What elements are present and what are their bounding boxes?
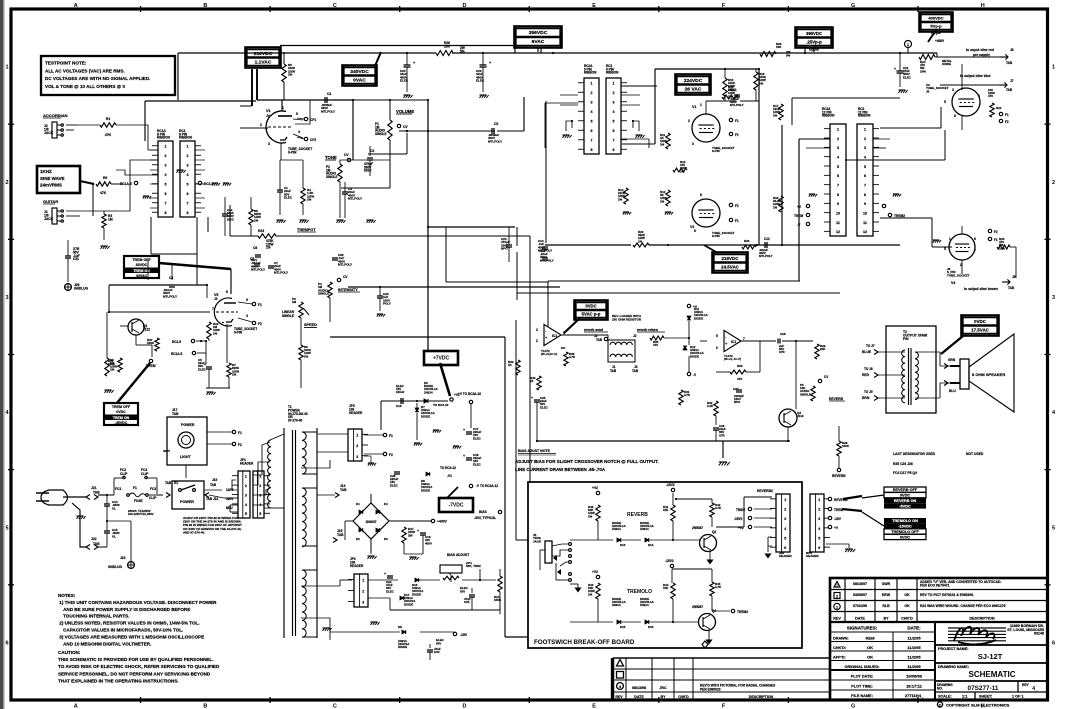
svg-text:6: 6 xyxy=(864,174,866,178)
svg-text:+V2: +V2 xyxy=(592,486,598,490)
svg-text:JACK: JACK xyxy=(44,131,54,135)
svg-text:63146: 63146 xyxy=(1034,632,1044,636)
svg-text:SIGNATURES:: SIGNATURES: xyxy=(847,626,878,631)
svg-text:SINE WAVE: SINE WAVE xyxy=(40,176,65,181)
svg-text:FILE NAME:: FILE NAME: xyxy=(851,694,873,698)
svg-text:DRAWN:: DRAWN: xyxy=(833,637,849,641)
svg-text:TAB: TAB xyxy=(610,369,617,373)
svg-text:1: 1 xyxy=(245,475,247,479)
svg-text:POWER: POWER xyxy=(180,500,194,504)
svg-text:CHK'D:: CHK'D: xyxy=(833,646,846,650)
svg-text:ELEC: ELEC xyxy=(473,436,482,440)
svg-text:X7R: X7R xyxy=(779,350,786,354)
svg-text:6: 6 xyxy=(974,237,976,241)
svg-text:+V2: +V2 xyxy=(592,570,598,574)
svg-text:E: E xyxy=(592,704,596,709)
svg-text:1: 1 xyxy=(907,43,909,47)
svg-text:C9: C9 xyxy=(494,122,498,126)
svg-text:D16: D16 xyxy=(648,625,654,629)
svg-text:5: 5 xyxy=(864,165,866,169)
svg-text:12: 12 xyxy=(836,230,840,234)
svg-text:5: 5 xyxy=(613,120,615,124)
svg-text:G: G xyxy=(851,3,855,9)
svg-text:OK: OK xyxy=(867,655,873,660)
svg-text:MTLPOLY: MTLPOLY xyxy=(251,268,265,272)
svg-text:-15VDC: -15VDC xyxy=(898,525,912,529)
svg-text:6: 6 xyxy=(5,640,8,646)
svg-text:RIBBON: RIBBON xyxy=(606,71,619,75)
svg-text:50K, TRIM: 50K, TRIM xyxy=(466,564,481,568)
svg-text:TO RC3-12: TO RC3-12 xyxy=(440,466,456,470)
svg-text:MTLPOLY: MTLPOLY xyxy=(321,109,335,113)
svg-text:to output xfmr brown: to output xfmr brown xyxy=(964,287,998,291)
svg-text:07S277-11: 07S277-11 xyxy=(968,685,999,692)
svg-text:9-PIN: 9-PIN xyxy=(234,330,243,334)
svg-text:220uF: 220uF xyxy=(396,390,405,394)
svg-text:5: 5 xyxy=(716,334,718,338)
svg-text:DATE: DATE xyxy=(634,695,644,699)
svg-text:5VAC p-p: 5VAC p-p xyxy=(582,312,601,317)
svg-text:18:17:11: 18:17:11 xyxy=(906,684,923,689)
svg-text:2: 2 xyxy=(187,154,189,158)
svg-text:J9: J9 xyxy=(1012,275,1016,279)
svg-text:3: 3 xyxy=(268,142,270,146)
svg-text:C2: C2 xyxy=(327,92,331,96)
svg-text:475: 475 xyxy=(737,377,742,381)
svg-text:MTLPOLY: MTLPOLY xyxy=(338,263,352,267)
svg-text:1: 1 xyxy=(818,498,820,502)
svg-text:150 OHM RESISTOR: 150 OHM RESISTOR xyxy=(612,317,642,321)
svg-text:+: + xyxy=(894,67,896,71)
svg-text:MTLPOLY: MTLPOLY xyxy=(274,271,288,275)
svg-text:2N5087: 2N5087 xyxy=(692,526,703,530)
svg-text:R33: R33 xyxy=(737,364,743,368)
svg-text:+: + xyxy=(463,454,465,458)
svg-text:ELEC: ELEC xyxy=(390,483,399,487)
svg-text:A: A xyxy=(74,3,78,9)
svg-text:1: 1 xyxy=(864,128,866,132)
svg-text:5Vp-p: 5Vp-p xyxy=(930,24,942,29)
svg-text:J7: J7 xyxy=(1010,79,1014,83)
svg-text:MTLPOLY: MTLPOLY xyxy=(163,294,177,298)
svg-text:4: 4 xyxy=(591,110,593,114)
svg-text:8: 8 xyxy=(837,193,839,197)
svg-text:ADJUST BIAS FOR SLIGHT CROSSOV: ADJUST BIAS FOR SLIGHT CROSSOVER NOTCH @… xyxy=(515,459,659,464)
svg-text:210VDC: 210VDC xyxy=(254,51,273,57)
svg-text:11/2/95: 11/2/95 xyxy=(907,664,921,669)
svg-text:08/13/98: 08/13/98 xyxy=(632,686,646,690)
svg-text:1: 1 xyxy=(700,103,702,107)
svg-text:X7R: X7R xyxy=(719,433,726,437)
svg-text:TO RC3-13: TO RC3-13 xyxy=(433,403,449,407)
svg-text:J21: J21 xyxy=(91,486,97,490)
svg-text:V1: V1 xyxy=(266,109,271,113)
svg-text:C27: C27 xyxy=(733,387,739,391)
svg-text:11: 11 xyxy=(863,221,867,225)
svg-text:1) THIS UNIT CONTAINS HAZARDOU: 1) THIS UNIT CONTAINS HAZARDOUS VOLTAGE.… xyxy=(58,600,217,605)
svg-text:OK: OK xyxy=(904,604,910,608)
svg-text:450V: 450V xyxy=(425,541,432,545)
svg-text:RED: RED xyxy=(862,373,870,377)
svg-text:INTENSITY: INTENSITY xyxy=(338,288,358,292)
svg-text:SCALE:: SCALE: xyxy=(938,695,952,699)
svg-text:400VDC: 400VDC xyxy=(928,16,943,21)
svg-text:GRN: GRN xyxy=(948,358,956,362)
svg-text:2) UNLESS NOTED, RESISTOR VALU: 2) UNLESS NOTED, RESISTOR VALUES IN OHMS… xyxy=(58,621,200,626)
svg-text:BIAS AJUST NOTE: BIAS AJUST NOTE xyxy=(518,449,551,453)
svg-text:ELEC: ELEC xyxy=(198,367,207,371)
svg-text:5%: 5% xyxy=(786,54,791,58)
svg-text:TAB: TAB xyxy=(93,491,100,495)
svg-text:3: 3 xyxy=(5,295,8,301)
svg-text:BLU: BLU xyxy=(949,389,956,393)
svg-text:1 OF 1: 1 OF 1 xyxy=(1012,695,1024,699)
svg-text:2: 2 xyxy=(784,507,786,511)
svg-text:27711H4_: 27711H4_ xyxy=(905,693,924,698)
svg-text:MTLPOLY: MTLPOLY xyxy=(759,254,773,258)
svg-text:REVERB: REVERB xyxy=(832,474,846,478)
svg-text:63V: 63V xyxy=(436,641,441,645)
svg-text:R24 WAS WIRE WOUND. CHANGE PER: R24 WAS WIRE WOUND. CHANGE PER ECO #96C2… xyxy=(920,604,1006,608)
svg-text:4: 4 xyxy=(978,94,980,98)
svg-text:4.7K: 4.7K xyxy=(569,355,576,359)
svg-text:SPEED: SPEED xyxy=(304,323,317,327)
svg-text:ELEC: ELEC xyxy=(284,196,293,200)
svg-text:356VDC: 356VDC xyxy=(529,30,548,36)
svg-text:8: 8 xyxy=(864,193,866,197)
svg-text:15K: 15K xyxy=(663,586,669,590)
svg-text:1: 1 xyxy=(563,331,565,335)
svg-text:400V: 400V xyxy=(163,449,170,453)
svg-text:6: 6 xyxy=(591,129,593,133)
svg-text:TO J8: TO J8 xyxy=(864,367,873,371)
svg-text:224VDC: 224VDC xyxy=(684,78,703,84)
svg-text:FC3: FC3 xyxy=(150,487,156,491)
svg-text:1N914: 1N914 xyxy=(640,603,649,607)
svg-text:HEADER: HEADER xyxy=(779,554,793,558)
svg-text:DIODE: DIODE xyxy=(398,645,407,649)
svg-text:3: 3 xyxy=(692,142,694,146)
svg-text:7: 7 xyxy=(591,139,593,143)
svg-text:GNDLUG: GNDLUG xyxy=(74,286,89,290)
svg-text:TREM2: TREM2 xyxy=(894,214,905,218)
svg-text:470: 470 xyxy=(653,343,658,347)
svg-text:ELEC: ELEC xyxy=(903,75,912,79)
svg-text:10/06/98: 10/06/98 xyxy=(906,674,922,679)
svg-text:COPYRIGHT SLM ELECTRONICS: COPYRIGHT SLM ELECTRONICS xyxy=(946,702,1010,707)
svg-text:D3: D3 xyxy=(384,537,388,541)
svg-text:6: 6 xyxy=(613,129,615,133)
svg-text:10%: 10% xyxy=(999,246,1005,250)
svg-text:NO.: NO. xyxy=(937,686,943,690)
svg-text:3: 3 xyxy=(165,164,167,168)
svg-text:RIBBON: RIBBON xyxy=(179,136,192,140)
svg-text:22: 22 xyxy=(530,379,534,383)
svg-text:4: 4 xyxy=(298,130,300,134)
svg-text:11/2/95: 11/2/95 xyxy=(907,645,921,650)
svg-text:TAB: TAB xyxy=(1008,286,1015,290)
svg-text:FC1: FC1 xyxy=(115,487,121,491)
svg-text:SINGLE: SINGLE xyxy=(282,314,295,318)
svg-text:V4: V4 xyxy=(951,281,955,285)
svg-text:D1: D1 xyxy=(356,502,360,506)
svg-text:RIBBON: RIBBON xyxy=(584,71,597,75)
svg-text:1%: 1% xyxy=(213,331,218,335)
svg-text:ELEC: ELEC xyxy=(473,462,482,466)
svg-text:1:1: 1:1 xyxy=(962,695,968,699)
svg-text:HEADER: HEADER xyxy=(350,564,364,568)
svg-text:TREMOLO ON: TREMOLO ON xyxy=(892,519,918,523)
svg-text:F2: F2 xyxy=(1005,120,1009,124)
svg-text:4: 4 xyxy=(245,503,247,507)
svg-text:TUBE_SOCKET: TUBE_SOCKET xyxy=(947,273,970,277)
svg-text:TREM OFF: TREM OFF xyxy=(132,258,151,262)
svg-text:5: 5 xyxy=(837,165,839,169)
svg-text:4: 4 xyxy=(187,173,189,177)
svg-text:2W: 2W xyxy=(408,533,413,537)
svg-text:TAB: TAB xyxy=(337,533,344,537)
svg-text:5: 5 xyxy=(1052,525,1055,531)
svg-text:5: 5 xyxy=(591,120,593,124)
svg-text:4: 4 xyxy=(246,314,248,318)
svg-text:SINGLE: SINGLE xyxy=(800,392,811,396)
svg-text:1%: 1% xyxy=(304,354,309,358)
svg-text:+V TO RC3A-10: +V TO RC3A-10 xyxy=(458,392,481,396)
svg-text:TREM: TREM xyxy=(146,364,156,368)
svg-text:3: 3 xyxy=(864,146,866,150)
svg-text:TUBE_SOCKET: TUBE_SOCKET xyxy=(926,86,949,90)
svg-text:7: 7 xyxy=(613,139,615,143)
svg-text:POWER: POWER xyxy=(181,423,195,427)
svg-text:BY: BY xyxy=(883,617,889,621)
svg-text:2: 2 xyxy=(165,154,167,158)
svg-text:47K: 47K xyxy=(105,133,112,137)
svg-text:2.2K: 2.2K xyxy=(707,404,714,408)
svg-text:-30V, TYPICAL: -30V, TYPICAL xyxy=(474,516,496,520)
svg-text:F2: F2 xyxy=(389,453,393,457)
svg-text:470: 470 xyxy=(988,94,993,98)
svg-text:1: 1 xyxy=(591,82,593,86)
svg-text:2: 2 xyxy=(1052,180,1055,186)
svg-text:4: 4 xyxy=(837,156,839,160)
svg-text:DIODE: DIODE xyxy=(421,414,430,418)
svg-text:D: D xyxy=(462,704,466,709)
svg-text:0VDC: 0VDC xyxy=(900,535,910,539)
svg-text:to output xfmr blue: to output xfmr blue xyxy=(960,74,991,78)
svg-text:ORIGINAL ISSUED:: ORIGINAL ISSUED: xyxy=(845,665,880,669)
svg-text:1%: 1% xyxy=(588,514,593,518)
svg-text:10: 10 xyxy=(836,212,840,216)
svg-text:DISC: DISC xyxy=(227,217,235,221)
svg-text:CAUTION:: CAUTION: xyxy=(58,650,81,655)
svg-text:PROJECT NAME:: PROJECT NAME: xyxy=(938,647,969,651)
svg-text:2: 2 xyxy=(362,590,364,594)
svg-text:2: 2 xyxy=(688,119,690,123)
svg-text:J19: J19 xyxy=(212,478,217,482)
svg-text:6: 6 xyxy=(187,192,189,196)
svg-text:7: 7 xyxy=(864,184,866,188)
svg-text:SWR: SWR xyxy=(882,582,891,586)
svg-text:TREM ON: TREM ON xyxy=(113,416,130,420)
svg-text:1N914: 1N914 xyxy=(424,390,433,394)
svg-text:E: E xyxy=(592,3,596,9)
svg-text:TREMOLO OFF: TREMOLO OFF xyxy=(891,530,919,534)
svg-text:AND 10 MEGOHM DIGITAL VOLTMETE: AND 10 MEGOHM DIGITAL VOLTMETER. xyxy=(58,641,151,646)
svg-text:03/05/97: 03/05/97 xyxy=(853,593,867,597)
svg-text:1%: 1% xyxy=(728,94,733,98)
svg-text:1%: 1% xyxy=(588,592,593,596)
svg-text:5: 5 xyxy=(165,183,167,187)
svg-text:4: 4 xyxy=(818,527,820,531)
svg-text:2: 2 xyxy=(837,137,839,141)
svg-text:4: 4 xyxy=(165,173,167,177)
svg-text:+: + xyxy=(531,396,533,400)
svg-text:TAB: TAB xyxy=(632,369,639,373)
svg-text:AND BE SURE POWER SUPPLY IS DI: AND BE SURE POWER SUPPLY IS DISCHARGED B… xyxy=(58,607,190,612)
svg-text:5: 5 xyxy=(784,536,786,540)
svg-text:MTLPOLY: MTLPOLY xyxy=(540,258,554,262)
svg-text:SINGLE: SINGLE xyxy=(375,132,387,136)
svg-text:6: 6 xyxy=(784,546,786,550)
svg-text:3: 3 xyxy=(245,493,247,497)
svg-text:9-PIN: 9-PIN xyxy=(712,149,720,153)
svg-text:TAB: TAB xyxy=(172,412,179,416)
svg-text:REM: REM xyxy=(866,636,876,641)
svg-text:REV TO PICT E970101 & E96039: REV TO PICT E970101 & E960390. xyxy=(920,593,974,597)
svg-text:6: 6 xyxy=(837,174,839,178)
svg-text:DESCRIPTION: DESCRIPTION xyxy=(969,617,995,621)
svg-text:1.1VAC: 1.1VAC xyxy=(255,59,272,65)
svg-text:D4: D4 xyxy=(384,502,388,506)
svg-text:MTLPOLY: MTLPOLY xyxy=(348,197,362,201)
svg-text:-7VDC: -7VDC xyxy=(448,503,463,509)
svg-text:3: 3 xyxy=(356,455,358,459)
svg-text:C8: C8 xyxy=(169,276,173,280)
svg-text:J8: J8 xyxy=(1010,48,1014,52)
svg-text:2: 2 xyxy=(864,137,866,141)
svg-text:8: 8 xyxy=(700,193,702,197)
svg-text:1N914: 1N914 xyxy=(612,527,621,531)
svg-text:RLB: RLB xyxy=(882,604,890,608)
svg-text:24mVRMS: 24mVRMS xyxy=(40,183,62,188)
svg-text:DATE: DATE xyxy=(855,617,865,621)
svg-text:C16: C16 xyxy=(396,404,402,408)
svg-text:ELEC: ELEC xyxy=(476,79,485,83)
svg-text:to ouput xfmr red: to ouput xfmr red xyxy=(966,48,994,52)
svg-text:20K: 20K xyxy=(820,347,826,351)
svg-text:-15V2: -15V2 xyxy=(734,517,743,521)
svg-text:6: 6 xyxy=(1052,640,1055,646)
svg-text:reverb return: reverb return xyxy=(637,328,658,332)
svg-text:JACK: JACK xyxy=(533,539,542,543)
svg-text:1: 1 xyxy=(187,145,189,149)
svg-text:RIBBON: RIBBON xyxy=(858,114,871,118)
svg-text:REVERB2: REVERB2 xyxy=(757,489,773,493)
svg-text:CHK'D: CHK'D xyxy=(901,617,913,621)
svg-text:4: 4 xyxy=(784,527,786,531)
svg-text:0VDC: 0VDC xyxy=(974,319,987,324)
svg-text:6: 6 xyxy=(694,229,696,233)
svg-text:7: 7 xyxy=(743,337,745,341)
svg-text:J23: J23 xyxy=(120,556,126,560)
svg-text:1%: 1% xyxy=(110,368,115,372)
svg-text:CHK'D: CHK'D xyxy=(678,695,689,699)
svg-text:1: 1 xyxy=(837,128,839,132)
svg-text:5: 5 xyxy=(245,512,247,516)
svg-text:TAB: TAB xyxy=(1006,61,1013,65)
svg-text:340VDC: 340VDC xyxy=(350,69,369,75)
svg-text:TAB: TAB xyxy=(1006,88,1013,92)
svg-text:5%: 5% xyxy=(460,49,465,53)
svg-text:5: 5 xyxy=(259,512,261,516)
svg-text:3: 3 xyxy=(837,146,839,150)
svg-text:1: 1 xyxy=(949,237,951,241)
svg-text:DIODE: DIODE xyxy=(694,316,703,320)
svg-text:VOL & TONE @ 10 ALL OTHERS @ 0: VOL & TONE @ 10 ALL OTHERS @ 0 xyxy=(45,84,125,89)
svg-text:C: C xyxy=(939,703,942,707)
svg-text:JACK: JACK xyxy=(44,217,54,221)
svg-text:B: B xyxy=(203,3,207,9)
svg-text:LINE CURRENT DRAW BETWEEN .65-: LINE CURRENT DRAW BETWEEN .65-.70A xyxy=(515,467,606,472)
svg-text:F1: F1 xyxy=(735,119,739,123)
svg-text:7: 7 xyxy=(974,249,976,253)
svg-text:CF2: CF2 xyxy=(310,138,316,142)
svg-text:5: 5 xyxy=(187,183,189,187)
svg-text:BIAS: BIAS xyxy=(479,510,488,514)
svg-text:3: 3 xyxy=(613,101,615,105)
svg-text:1%: 1% xyxy=(759,81,764,85)
svg-text:-5VDC: -5VDC xyxy=(899,504,911,508)
svg-text:C6: C6 xyxy=(253,246,257,250)
svg-text:1: 1 xyxy=(784,498,786,502)
svg-text:10K: 10K xyxy=(444,44,451,48)
svg-text:11/2/95: 11/2/95 xyxy=(907,636,921,641)
svg-text:G: G xyxy=(851,704,855,709)
svg-text:GNDLUG: GNDLUG xyxy=(108,565,123,569)
svg-text:2: 2 xyxy=(356,444,358,448)
svg-text:1: 1 xyxy=(613,82,615,86)
svg-text:TREM: TREM xyxy=(794,214,804,218)
svg-text:TO AVOID RISK OF ELECTRIC SHOC: TO AVOID RISK OF ELECTRIC SHOCK, REFER S… xyxy=(58,664,220,669)
svg-text:C: C xyxy=(333,3,337,9)
svg-text:4: 4 xyxy=(864,156,866,160)
svg-text:1: 1 xyxy=(362,579,364,583)
svg-text:DIODE: DIODE xyxy=(412,592,421,596)
svg-text:ELEC: ELEC xyxy=(400,79,409,83)
svg-text:BRN: BRN xyxy=(862,396,870,400)
svg-text:ALL AC VOLTAGES (VAC) ARE RMS.: ALL AC VOLTAGES (VAC) ARE RMS. xyxy=(45,68,125,73)
svg-text:NPO: NPO xyxy=(501,247,508,251)
svg-text:100-120V:T2A,250V: 100-120V:T2A,250V xyxy=(128,512,154,516)
svg-text:F2: F2 xyxy=(994,230,998,234)
svg-text:11/2/95: 11/2/95 xyxy=(907,655,921,660)
svg-text:2: 2 xyxy=(818,507,820,511)
svg-text:D9: D9 xyxy=(398,625,402,629)
svg-text:C: C xyxy=(333,704,337,709)
svg-text:-15V: -15V xyxy=(460,633,468,637)
svg-text:7: 7 xyxy=(212,307,214,311)
svg-text:1KHZ: 1KHZ xyxy=(40,169,52,174)
svg-text:-15V2: -15V2 xyxy=(665,559,674,563)
svg-text:C12: C12 xyxy=(764,237,770,241)
svg-text:TAB: TAB xyxy=(340,488,347,492)
svg-text:R20: R20 xyxy=(744,239,750,243)
svg-text:15K: 15K xyxy=(663,508,669,512)
svg-text:F1: F1 xyxy=(994,238,998,242)
svg-text:FOOTSWICH BREAK-OFF BOARD: FOOTSWICH BREAK-OFF BOARD xyxy=(534,639,635,646)
svg-text:F2: F2 xyxy=(238,443,242,447)
svg-text:3: 3 xyxy=(591,101,593,105)
